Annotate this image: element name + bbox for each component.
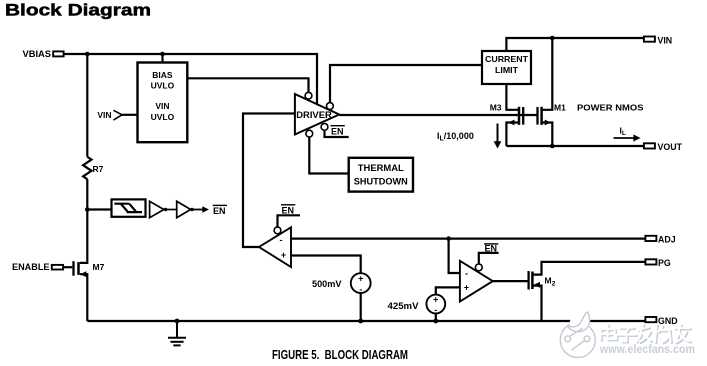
node gnd-rail <box>175 319 180 324</box>
svg-text:500mV: 500mV <box>312 279 342 289</box>
wire M7 source to bottom rail <box>80 274 88 321</box>
wire M2 source to bottom rail <box>533 286 541 321</box>
svg-text:BIAS: BIAS <box>152 70 173 80</box>
svg-text:EN: EN <box>282 205 295 215</box>
wire error amp to driver input <box>243 114 295 248</box>
svg-text:UVLO: UVLO <box>151 112 175 122</box>
svg-text:EN: EN <box>213 206 226 216</box>
buffer 1 <box>150 201 164 217</box>
node buffer1 out <box>164 208 167 211</box>
node junction dots <box>85 36 555 324</box>
node VBIAS-UVLO <box>160 52 165 57</box>
wire BIAS UVLO top drop <box>161 54 163 63</box>
wire op2 EN stub <box>479 253 499 264</box>
transistor M3 <box>490 103 524 126</box>
op2 bubble <box>475 264 482 271</box>
svg-text:-: - <box>359 285 362 295</box>
wire error amp EN stub <box>278 215 301 227</box>
wire op2 plus to 425mV <box>436 287 460 294</box>
buffer 2 <box>177 201 191 217</box>
wire 500mV to bottom rail <box>360 293 362 321</box>
error amp EN label <box>281 205 295 216</box>
terminal VIN <box>644 35 672 45</box>
wire M2 drain to PG <box>533 262 645 275</box>
wire bottom rail GND <box>87 320 645 322</box>
wire op2 output to M2 gate <box>493 280 528 282</box>
resistor R7 <box>83 157 91 179</box>
transistor M7 <box>74 261 105 277</box>
svg-text:EN: EN <box>331 126 344 136</box>
label EN out <box>213 205 227 216</box>
VIN input arrow <box>97 110 122 120</box>
svg-text:PG: PG <box>658 258 671 268</box>
node VBIAS-R7 <box>85 52 90 57</box>
node ADJ-op2 <box>446 236 451 241</box>
node R7-schmitt <box>85 207 90 212</box>
svg-text:+: + <box>433 295 438 305</box>
wire BIAS UVLO out to driver bubble1 <box>187 78 308 92</box>
wire CURRENT LIMIT top to VIN rail <box>506 38 644 51</box>
terminal ENABLE <box>12 262 63 272</box>
wire VBIAS rail <box>64 54 318 104</box>
driver bubble 2 <box>327 103 334 110</box>
wire to schmitt input <box>87 208 111 210</box>
svg-text:Block Diagram: Block Diagram <box>5 2 151 20</box>
terminal VBIAS <box>23 49 64 59</box>
terminal PG <box>645 258 670 268</box>
svg-text:DRIVER: DRIVER <box>296 110 332 120</box>
op-amp U2 PG comparator <box>460 261 493 302</box>
terminal ADJ <box>645 235 675 245</box>
watermark logo <box>560 311 595 358</box>
driver bubble 1 <box>305 92 312 99</box>
svg-text:ENABLE: ENABLE <box>12 262 50 272</box>
ground <box>168 321 186 345</box>
wire buffer1 to buffer2 <box>164 209 177 211</box>
svg-text:+: + <box>358 274 363 284</box>
svg-text:+: + <box>464 282 469 292</box>
wire 425mV to bottom rail <box>435 313 437 321</box>
svg-text:M7: M7 <box>93 262 105 272</box>
arrow EN out <box>191 206 209 213</box>
block CURRENT LIMIT <box>482 51 531 84</box>
block BIAS UVLO <box>138 63 188 143</box>
arrow IL/10,000 down <box>494 124 502 149</box>
svg-text:425mV: 425mV <box>388 301 419 311</box>
wire ADJ junction to op2 minus <box>449 239 460 273</box>
node VIN rail M1 <box>550 36 555 41</box>
wire driver bubble2 to CURRENT LIMIT <box>330 65 482 103</box>
watermark chinese text <box>601 325 691 344</box>
svg-text:ADJ: ADJ <box>658 235 676 245</box>
source 500mV <box>312 273 371 294</box>
transistor M2 <box>529 271 556 290</box>
wire error amp plus to 500mV <box>291 256 361 274</box>
wire driver output to gates M3 M1 <box>339 114 536 116</box>
svg-text:-: - <box>434 305 437 315</box>
node buffer2 out <box>190 208 193 211</box>
svg-text:VIN: VIN <box>97 110 111 120</box>
source 425mV <box>388 295 446 316</box>
svg-text:THERMAL: THERMAL <box>358 163 405 173</box>
svg-text:M1: M1 <box>554 103 566 113</box>
svg-text:www.elecfans.com: www.elecfans.com <box>599 342 695 356</box>
wire CURRENT LIMIT bottom to M3 drain <box>506 84 518 110</box>
svg-text:VBIAS: VBIAS <box>23 49 52 59</box>
node VOUT rail M1 <box>550 144 555 149</box>
svg-text:M3: M3 <box>490 103 502 113</box>
error amp bubble <box>274 227 281 234</box>
svg-text:POWER NMOS: POWER NMOS <box>577 103 644 113</box>
op2 EN label <box>484 243 498 253</box>
label IL arrow right <box>614 126 641 142</box>
terminal VOUT <box>644 142 683 152</box>
wire VOUT rail <box>506 145 644 147</box>
driver bubble 3 <box>321 124 328 131</box>
wire R7 to M7 drain <box>80 179 88 263</box>
svg-text:VOUT: VOUT <box>658 142 683 152</box>
op-amp U1 error amp (points left) <box>259 227 291 267</box>
wire ADJ line (error amp minus) <box>291 238 645 240</box>
node 500mV-rail <box>358 319 363 324</box>
svg-text:SHUTDOWN: SHUTDOWN <box>354 176 408 186</box>
wire left column upper (VBIAS to R7) <box>86 54 88 157</box>
svg-text:CURRENT: CURRENT <box>485 54 529 64</box>
svg-text:R7: R7 <box>93 164 104 174</box>
svg-text:LIMIT: LIMIT <box>495 65 519 75</box>
driver EN label <box>331 126 345 137</box>
wire M1 drain up <box>543 38 553 110</box>
driver bubble 4 <box>306 130 313 137</box>
transistor M1 <box>538 103 567 126</box>
schmitt trigger block <box>112 199 146 216</box>
svg-text:UVLO: UVLO <box>151 80 175 90</box>
svg-text:-: - <box>465 268 468 278</box>
wire M1 source down <box>543 123 553 147</box>
wire driver bubble4 to THERMAL SHUTDOWN <box>309 137 348 174</box>
wire VIN input to BIAS UVLO <box>122 114 138 116</box>
wire M3 source down <box>506 123 518 147</box>
svg-text:FIGURE 5. BLOCK DIAGRAM: FIGURE 5. BLOCK DIAGRAM <box>272 348 408 362</box>
svg-text:VIN: VIN <box>658 35 673 45</box>
wire ENABLE to M7 gate <box>64 266 73 268</box>
wire driver bubble3 EN stub <box>325 130 349 137</box>
terminal GND <box>645 316 677 326</box>
svg-text:+: + <box>281 250 286 260</box>
svg-text:VIN: VIN <box>155 101 169 111</box>
node 425mV-rail <box>433 319 438 324</box>
block THERMAL SHUTDOWN <box>349 158 413 192</box>
op-amp DRIVER <box>295 94 339 135</box>
svg-text:EN: EN <box>485 243 498 253</box>
svg-text:GND: GND <box>658 316 678 326</box>
svg-text:-: - <box>280 235 283 245</box>
